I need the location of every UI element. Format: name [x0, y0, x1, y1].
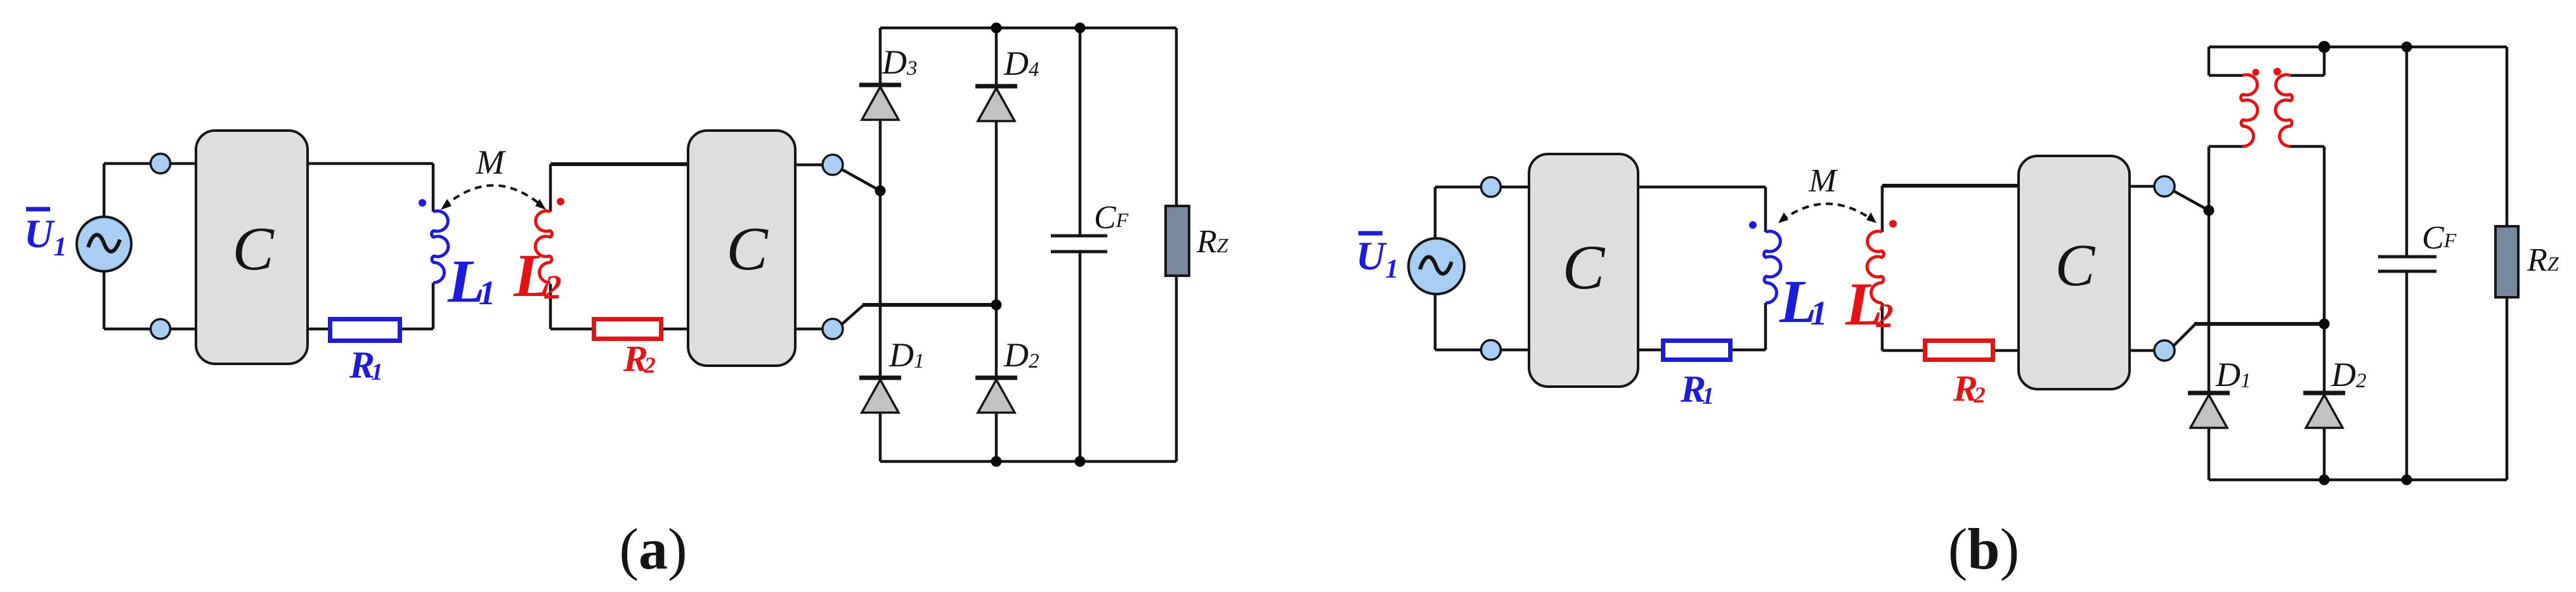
svg-text:RZ: RZ — [1196, 224, 1229, 260]
svg-text:U1: U1 — [24, 211, 67, 262]
svg-text:D1: D1 — [888, 336, 925, 374]
svg-text:D4: D4 — [1003, 44, 1039, 82]
svg-text:L2: L2 — [1845, 270, 1894, 338]
svg-text:D2: D2 — [2331, 356, 2367, 394]
svg-text:U1: U1 — [1356, 233, 1398, 284]
svg-text:CF: CF — [2422, 220, 2457, 256]
svg-text:L2: L2 — [513, 241, 562, 309]
svg-text:L1: L1 — [1779, 267, 1828, 335]
svg-text:R1: R1 — [349, 344, 383, 386]
svg-text:L1: L1 — [447, 247, 496, 315]
svg-text:D3: D3 — [881, 43, 918, 81]
svg-text:D2: D2 — [1003, 336, 1039, 374]
svg-text:C: C — [1563, 232, 1606, 302]
svg-text:M: M — [476, 143, 507, 181]
svg-text:RZ: RZ — [2527, 242, 2560, 278]
svg-text:C: C — [2055, 233, 2096, 299]
svg-text:R2: R2 — [623, 338, 656, 379]
svg-text:M: M — [1808, 163, 1838, 199]
svg-text:CF: CF — [1094, 200, 1129, 236]
svg-text:R2: R2 — [1953, 368, 1986, 409]
svg-text:D1: D1 — [2215, 356, 2251, 394]
svg-text:(b): (b) — [1948, 517, 2019, 581]
svg-text:(a): (a) — [619, 517, 687, 581]
svg-text:C: C — [232, 215, 275, 283]
svg-text:R1: R1 — [1680, 368, 1714, 410]
svg-text:C: C — [726, 215, 769, 283]
